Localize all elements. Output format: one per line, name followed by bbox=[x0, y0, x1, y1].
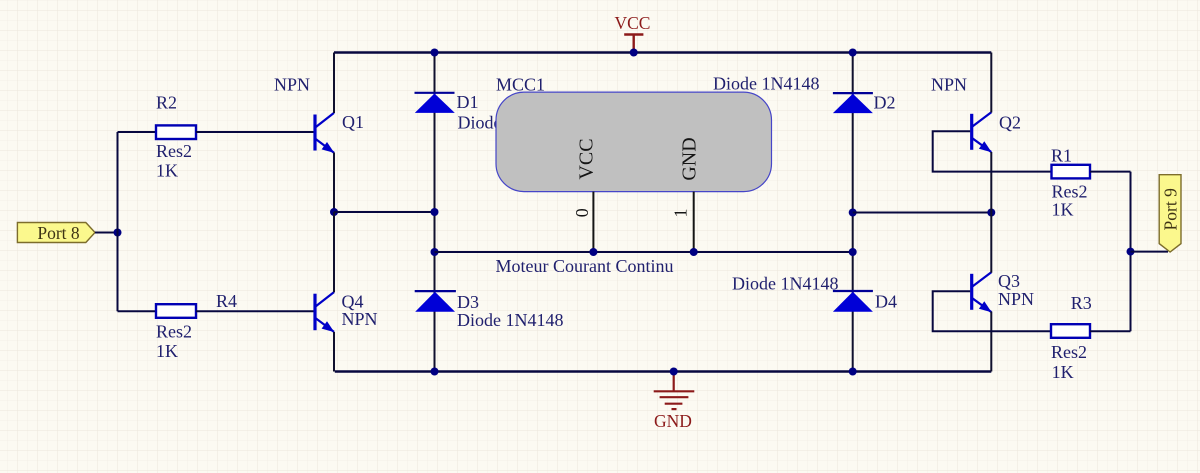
junction D2 col bottom bbox=[849, 368, 857, 376]
pin 1 line bbox=[693, 192, 695, 252]
svg-text:D1: D1 bbox=[457, 92, 479, 112]
svg-text:D3: D3 bbox=[457, 292, 479, 312]
svg-text:Q2: Q2 bbox=[999, 113, 1021, 133]
power symbol VCC bar bbox=[624, 35, 643, 53]
svg-text:GND: GND bbox=[679, 137, 701, 180]
junction Q2-Q3 node bbox=[987, 209, 995, 217]
svg-text:Port 9: Port 9 bbox=[1161, 188, 1181, 231]
junction Port 9 node bbox=[1127, 248, 1135, 256]
wire Q3 collector bbox=[990, 213, 992, 273]
wire diode column D1 D3 bbox=[434, 53, 436, 372]
wire port column vertical bbox=[1130, 172, 1132, 332]
svg-text:R2: R2 bbox=[156, 93, 177, 113]
diode D2 bbox=[833, 93, 873, 113]
transistor Q3 bbox=[972, 272, 992, 312]
wire top rail VCC bbox=[334, 51, 991, 54]
junction pin0 bbox=[589, 248, 597, 256]
svg-text:Moteur Courant Continu: Moteur Courant Continu bbox=[496, 256, 674, 276]
wire Q3 emitter bbox=[990, 312, 992, 372]
svg-text:Diode 1N4148: Diode 1N4148 bbox=[713, 74, 820, 94]
svg-text:R3: R3 bbox=[1071, 293, 1092, 313]
wire mid right bbox=[853, 212, 992, 214]
svg-text:1K: 1K bbox=[1052, 199, 1074, 219]
wire to Port 9 bbox=[1131, 251, 1169, 253]
svg-text:Res2: Res2 bbox=[156, 322, 192, 342]
wire Q4 collector bbox=[333, 212, 335, 292]
svg-text:1K: 1K bbox=[156, 161, 178, 181]
svg-text:1K: 1K bbox=[1052, 362, 1074, 382]
wire R1 to port column bbox=[1090, 171, 1131, 173]
wire center bbox=[435, 251, 853, 253]
svg-text:Port 8: Port 8 bbox=[37, 223, 80, 243]
pin 0 line bbox=[592, 192, 594, 252]
resistor R3 bbox=[1051, 324, 1090, 338]
wire Q1 collector bbox=[333, 53, 335, 114]
junction Port 8 node bbox=[114, 229, 122, 237]
svg-text:R1: R1 bbox=[1051, 146, 1072, 166]
svg-text:VCC: VCC bbox=[615, 13, 651, 33]
svg-text:NPN: NPN bbox=[274, 75, 310, 95]
resistor R4 bbox=[156, 304, 196, 318]
svg-text:Q3: Q3 bbox=[998, 271, 1020, 291]
wire R3 to port column bbox=[1090, 330, 1131, 332]
wire node to R2 bbox=[118, 131, 157, 133]
svg-text:NPN: NPN bbox=[998, 289, 1034, 309]
junction D2 col mid2 bbox=[849, 248, 857, 256]
wire left column bbox=[117, 132, 119, 311]
junction GND-rail bbox=[670, 368, 678, 376]
wire node to R4 bbox=[118, 310, 157, 312]
wire Q2 emitter bbox=[990, 152, 992, 213]
port Port 9 bbox=[1159, 175, 1181, 252]
wire Q1 emitter bbox=[333, 153, 335, 213]
svg-text:Diode 1N4148: Diode 1N4148 bbox=[732, 274, 839, 294]
junction D1 top bbox=[431, 49, 439, 57]
svg-text:NPN: NPN bbox=[931, 75, 967, 95]
junction D2 top bbox=[849, 49, 857, 57]
svg-text:D4: D4 bbox=[875, 292, 897, 312]
transistor Q2 bbox=[972, 112, 992, 152]
svg-text:1K: 1K bbox=[156, 341, 178, 361]
transistor Q4 bbox=[315, 292, 334, 332]
wire diode column D2 D4 bbox=[852, 53, 854, 372]
port Port 8 bbox=[17, 223, 95, 244]
wire Q4 emitter bbox=[333, 332, 335, 372]
junction Q1-Q4 node bbox=[330, 208, 338, 216]
svg-text:Q1: Q1 bbox=[342, 112, 364, 132]
svg-text:NPN: NPN bbox=[342, 309, 378, 329]
wire R4 to Q4 base bbox=[196, 310, 314, 312]
wire R2 to Q1 base bbox=[196, 131, 314, 133]
svg-text:R4: R4 bbox=[216, 291, 237, 311]
junction D column mid2 bbox=[431, 248, 439, 256]
junction D2 col mid1 bbox=[849, 209, 857, 217]
junction VCC-rail bbox=[630, 49, 638, 57]
junction pin1 bbox=[690, 248, 698, 256]
junction D column bottom bbox=[431, 368, 439, 376]
svg-text:Res2: Res2 bbox=[156, 141, 192, 161]
wire mid left bbox=[334, 211, 435, 213]
svg-text:MCC1: MCC1 bbox=[496, 75, 545, 95]
wire bottom rail GND bbox=[335, 370, 992, 373]
resistor R2 bbox=[156, 125, 196, 139]
wire Q2 collector bbox=[990, 53, 992, 113]
svg-text:Res2: Res2 bbox=[1051, 342, 1087, 362]
transistor Q1 bbox=[315, 113, 334, 153]
svg-text:VCC: VCC bbox=[576, 138, 598, 179]
svg-text:Diode 1N4148: Diode 1N4148 bbox=[457, 310, 564, 330]
svg-text:1: 1 bbox=[671, 209, 691, 218]
junction D column mid1 bbox=[431, 208, 439, 216]
svg-text:0: 0 bbox=[572, 208, 592, 217]
ground symbol GND bbox=[654, 372, 695, 410]
diode D1 bbox=[415, 93, 455, 113]
svg-text:D2: D2 bbox=[874, 93, 896, 113]
component MCC1 motor body bbox=[496, 92, 772, 192]
diode D4 bbox=[833, 291, 873, 312]
wire Q2 base route bbox=[933, 131, 1052, 171]
wire Q3 base route bbox=[933, 291, 1051, 331]
diode D3 bbox=[415, 291, 456, 312]
resistor R1 bbox=[1052, 165, 1091, 179]
svg-text:GND: GND bbox=[654, 411, 692, 431]
wire Port 8 to node bbox=[95, 232, 118, 234]
